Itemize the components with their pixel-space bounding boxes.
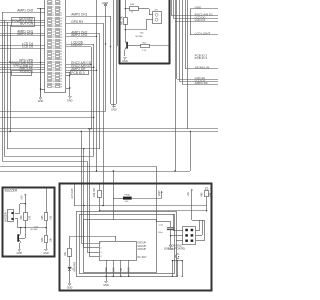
svg-text:VANT: VANT [158,190,161,197]
svg-text:BC338: BC338 [136,36,143,38]
svg-text:2.7k: 2.7k [142,50,146,52]
svg-text:GROUP: GROUP [138,243,147,245]
svg-text:1k: 1k [131,11,133,13]
svg-text:+5V: +5V [21,195,24,200]
svg-text:GND: GND [102,1,108,5]
svg-text:GND: GND [111,109,117,112]
svg-text:GROUP: GROUP [138,246,147,248]
svg-text:BC338: BC338 [31,229,38,231]
svg-text:NC 4017: NC 4017 [138,257,148,259]
svg-text:R44 10R: R44 10R [94,188,96,198]
svg-text:R41: R41 [65,251,67,256]
svg-text:BUZZER: BUZZER [5,189,18,193]
svg-text:BUTTON: BUTTON [20,22,34,26]
svg-text:GND: GND [67,99,73,102]
svg-text:AMP2 CH2: AMP2 CH2 [71,33,87,37]
svg-text:GPS ANT: GPS ANT [71,188,74,199]
svg-text:PCB ID 3: PCB ID 3 [195,56,208,60]
svg-text:AMP1 CH2: AMP1 CH2 [17,9,33,13]
svg-text:R45: R45 [202,192,204,197]
svg-text:R41 10k: R41 10k [121,15,123,25]
svg-text:GND: GND [103,284,109,287]
svg-text:GND: GND [17,252,23,255]
svg-text:LCD D7: LCD D7 [71,43,83,47]
svg-text:3: 3 [100,252,101,254]
svg-text:SIGNAL IN: SIGNAL IN [195,66,210,70]
svg-text:+5V: +5V [187,192,190,197]
svg-text:VCC: VCC [113,267,115,272]
svg-text:R44: R44 [21,215,23,220]
svg-text:TXD: TXD [121,267,123,272]
svg-text:FB40: FB40 [125,194,131,196]
svg-text:R45: R45 [42,215,44,220]
svg-text:RXD: RXD [129,267,131,272]
svg-text:2: 2 [100,248,101,250]
svg-text:AMP2 CH1: AMP2 CH1 [71,13,87,17]
svg-text:AMP1 CH2: AMP1 CH2 [17,32,33,36]
svg-text:GND: GND [38,100,44,103]
svg-text:1: 1 [100,243,101,245]
svg-text:4: 4 [100,256,101,258]
svg-text:100n: 100n [158,232,162,234]
svg-text:PCB ID 0: PCB ID 0 [71,71,85,75]
svg-text:GROUP: GROUP [138,249,147,251]
svg-text:(GPS-UPDATE): (GPS-UPDATE) [164,247,185,251]
svg-text:GND: GND [122,60,128,63]
svg-text:GPS PPS: GPS PPS [74,261,76,271]
svg-text:GND: GND [67,286,73,289]
svg-text:R46: R46 [42,237,44,242]
svg-text:BUZZER: BUZZER [6,212,8,221]
svg-text:LCD D5: LCD D5 [22,45,34,49]
svg-text:GND: GND [43,252,49,255]
svg-text:GPS RX: GPS RX [71,20,84,24]
svg-text:GND: GND [106,267,108,272]
